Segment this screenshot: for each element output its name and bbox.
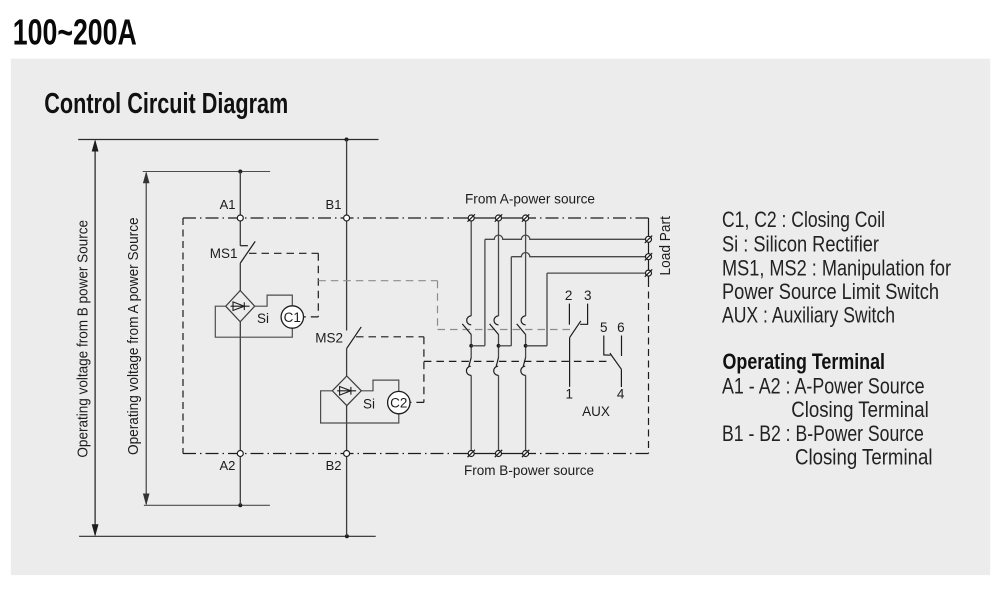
node: junction dot B2 bottom <box>345 534 349 538</box>
node: junction dot A1 top <box>238 170 242 174</box>
contact: pole 3 lower switch <box>521 358 526 376</box>
svg-text:6: 6 <box>617 320 625 335</box>
wire: load line 3 <box>526 273 649 346</box>
wire: phase pole 1 vertical <box>470 218 472 454</box>
terminal: top pole 2 <box>495 214 502 221</box>
svg-text:Power Source Limit Switch: Power Source Limit Switch <box>722 279 939 304</box>
svg-text:Load Part: Load Part <box>658 216 674 275</box>
svg-text:C1: C1 <box>284 310 301 325</box>
wire: MS2 dashed to C2 <box>356 337 424 403</box>
wire: A1 vertical <box>239 172 241 506</box>
rectifier Si2 diamond <box>332 376 361 406</box>
diode inside Si2 <box>337 387 356 396</box>
switch MS1 <box>240 241 255 263</box>
coil C2 <box>388 391 410 413</box>
contact: pole 1 upper switch <box>462 316 471 335</box>
wire: phase pole 3 vertical <box>525 218 527 454</box>
switch MS2 <box>347 327 362 349</box>
terminal: top pole 1 <box>468 214 475 221</box>
svg-text:Closing Terminal: Closing Terminal <box>791 397 929 422</box>
contact: pole 3 upper switch <box>517 316 526 335</box>
svg-text:A2: A2 <box>219 458 235 473</box>
svg-text:AUX: AUX <box>582 404 610 419</box>
contact: pole 1 lower switch <box>466 358 471 376</box>
node A1 <box>237 215 243 221</box>
terminal: bottom pole 1 <box>468 450 475 457</box>
node: junction dot B1 top <box>345 138 349 142</box>
node B1 <box>344 215 350 221</box>
wire: load line 2 with hop <box>499 253 649 346</box>
contact: pole 2 upper switch <box>490 316 499 335</box>
wire: B1 vertical <box>346 140 348 537</box>
svg-text:Control Circuit Diagram: Control Circuit Diagram <box>44 88 288 120</box>
contact: pole 2 lower switch <box>494 358 499 376</box>
terminal: bottom pole 3 <box>522 450 529 457</box>
svg-text:C2: C2 <box>390 395 407 410</box>
svg-text:2: 2 <box>565 288 573 303</box>
svg-text:1: 1 <box>566 387 574 402</box>
terminal: load 2 <box>645 253 652 260</box>
svg-text:MS1, MS2 : Manipulation for: MS1, MS2 : Manipulation for <box>722 256 951 281</box>
svg-text:C1, C2 : Closing Coil: C1, C2 : Closing Coil <box>722 207 885 232</box>
wire: top horizontal line B-power <box>78 139 378 141</box>
svg-text:MS1: MS1 <box>210 246 238 261</box>
coil C1 <box>281 306 303 328</box>
wire: dash-dot node line y218 <box>183 217 649 219</box>
wire: Si1 loop left/bottom <box>215 295 292 337</box>
svg-text:Si: Si <box>257 311 269 326</box>
wire: measure line B vertical with arrows <box>92 139 99 536</box>
svg-text:Operating voltage from A power: Operating voltage from A power Source <box>126 217 142 455</box>
svg-text:Operating voltage from B power: Operating voltage from B power Source <box>76 220 92 458</box>
wire: measure line A vertical with arrows <box>143 171 150 505</box>
svg-text:B2: B2 <box>326 458 342 473</box>
svg-text:100~200A: 100~200A <box>13 12 137 53</box>
terminal: top pole 3 <box>522 214 529 221</box>
svg-text:From B-power source: From B-power source <box>464 463 594 478</box>
svg-text:Si : Silicon Rectifier: Si : Silicon Rectifier <box>722 231 879 256</box>
svg-text:AUX : Auxiliary Switch: AUX : Auxiliary Switch <box>722 303 895 328</box>
svg-text:Si: Si <box>363 397 375 412</box>
terminal: load 1 <box>645 236 652 243</box>
wire: dash-dot node line y453.5 <box>183 453 649 455</box>
diode inside Si1 <box>231 302 250 311</box>
wire: dashed box right edge <box>648 218 650 454</box>
svg-text:3: 3 <box>584 288 592 303</box>
terminal: bottom pole 2 <box>495 450 502 457</box>
rectifier Si1 diamond <box>226 291 255 322</box>
wire: bottom horizontal line B-power <box>79 535 376 537</box>
terminal: load 3 <box>645 269 652 276</box>
node A2 <box>237 451 243 457</box>
svg-text:4: 4 <box>617 387 625 402</box>
wire: bottom horizontal line A-power <box>144 504 270 506</box>
svg-text:A1: A1 <box>220 197 236 212</box>
svg-text:B1: B1 <box>326 197 342 212</box>
wire: phase pole 2 vertical <box>498 218 500 454</box>
node B2 <box>344 451 350 457</box>
wire: dashed box left edge <box>182 218 184 454</box>
node: junction dots on poles <box>469 344 473 348</box>
svg-text:Operating Terminal: Operating Terminal <box>723 349 886 374</box>
svg-text:From A-power source: From A-power source <box>465 192 595 207</box>
wire: top horizontal line A-power <box>143 171 270 173</box>
aux switch 5-6-4 <box>604 336 622 388</box>
svg-text:5: 5 <box>600 320 608 335</box>
wire: black dashed linkage to AUX 5-4 <box>424 360 609 362</box>
svg-text:MS2: MS2 <box>315 331 343 346</box>
svg-text:B1 - B2 : B-Power Source: B1 - B2 : B-Power Source <box>722 421 924 446</box>
wire: MS1 dashed to C1 <box>249 253 318 317</box>
svg-text:Closing Terminal: Closing Terminal <box>795 445 933 470</box>
node: junction dot A2 bottom <box>238 503 242 507</box>
svg-text:A1 - A2 : A-Power Source: A1 - A2 : A-Power Source <box>722 373 925 398</box>
aux switch 2-3-1 <box>569 304 587 387</box>
wire: gray dashed linkage <box>318 281 573 330</box>
wire: Si2 loops <box>321 380 399 423</box>
wire: load line 1 with hops <box>471 235 648 346</box>
